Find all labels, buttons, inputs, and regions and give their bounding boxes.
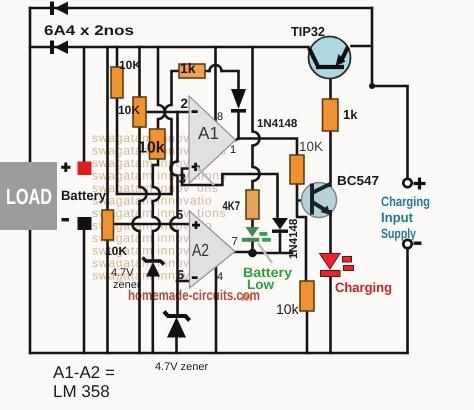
wire y224 pin5 line: [113, 223, 190, 226]
diode D3 1N4148: [231, 89, 246, 113]
svg-text:A1: A1: [198, 123, 219, 143]
battery plus terminal: [61, 162, 91, 176]
svg-text:3: 3: [179, 171, 187, 186]
svg-text:10K: 10K: [299, 139, 323, 154]
wire A2 output stub: [235, 251, 253, 254]
wire 10k R3 chain top: [158, 47, 165, 129]
svg-text:6: 6: [177, 267, 184, 282]
wire y138 to R5: [239, 139, 298, 156]
wire 4K7 bottom to green led: [251, 219, 254, 226]
resistor R1 10K: [111, 58, 141, 98]
svg-text:10K: 10K: [118, 103, 140, 117]
cursor artifact near A1: [197, 167, 214, 185]
wire green led to junction: [251, 243, 254, 254]
svg-text:8: 8: [217, 111, 223, 123]
wire zener Z1 bottom: [152, 277, 155, 353]
wire BC547 emitter down to red led: [329, 215, 332, 252]
junction dot right top: [369, 83, 375, 89]
svg-text:7: 7: [232, 236, 238, 248]
svg-text:10K: 10K: [105, 244, 127, 258]
svg-text:1k: 1k: [180, 60, 196, 76]
svg-text:1: 1: [230, 144, 236, 156]
wire 10K R4 chain top: [106, 47, 109, 210]
label Charging Input Supply: [381, 194, 430, 241]
zener Z2 4.7V: [164, 312, 190, 338]
wire 1k bottom to BC547 collector: [329, 131, 332, 187]
wire 10K R1 chain: [116, 47, 119, 67]
diode D1 6A4 top: [50, 2, 68, 16]
svg-text:A2: A2: [192, 240, 209, 260]
battery minus terminal: [62, 217, 92, 230]
wire junction to D4 bottom and right: [253, 233, 293, 254]
op-amp U1 A1: [179, 96, 237, 186]
wire 1k right to diode D3: [204, 71, 239, 89]
wire zener Z2 bottom: [175, 338, 178, 353]
svg-text:Input: Input: [381, 210, 413, 225]
svg-text:4K7: 4K7: [223, 199, 241, 213]
wire 10K R2 chain top: [138, 47, 141, 97]
wire R4 bottom: [106, 240, 109, 353]
svg-text:LM 358: LM 358: [53, 382, 110, 401]
LOAD box: [0, 162, 57, 230]
svg-text:Low: Low: [247, 277, 274, 292]
wire pin3 path under A1 to D4: [182, 169, 278, 219]
transistor Q2 BC547: [302, 173, 380, 218]
resistor R6 10k: [276, 281, 314, 317]
cursor artifact battery low: [258, 243, 272, 263]
svg-text:TIP32: TIP32: [291, 24, 325, 39]
svg-text:6A4 x 2nos: 6A4 x 2nos: [44, 22, 134, 38]
svg-text:4: 4: [217, 271, 223, 283]
svg-text:A1-A2 =: A1-A2 =: [53, 363, 115, 382]
wire A1 output stub: [236, 139, 239, 141]
svg-text:4.7V zener: 4.7V zener: [155, 361, 209, 373]
transistor Q1 TIP32: [291, 24, 351, 79]
wire second rail: [30, 46, 309, 49]
wire pin6 stub: [177, 280, 190, 283]
wire y112 pin2 line: [146, 111, 189, 114]
svg-text:1N4148: 1N4148: [288, 218, 300, 259]
wire 1k left feedback vertical: [165, 71, 179, 194]
resistor R8 4K7: [223, 190, 260, 219]
wire red led bottom: [329, 276, 332, 353]
svg-text:Charging: Charging: [381, 194, 430, 209]
svg-text:1k: 1k: [343, 107, 358, 122]
wire LOAD bottom: [29, 230, 32, 353]
svg-text:Supply: Supply: [381, 226, 416, 241]
wire bottom rail: [30, 352, 408, 355]
wire TIP32 collector to right: [352, 45, 373, 48]
watermark swagatam innovations: [92, 131, 227, 283]
resistor R9 1k: [323, 99, 359, 131]
resistor R3 10k: [138, 129, 165, 159]
terminal charging plus: [403, 178, 425, 190]
wire battery plus drop: [83, 47, 86, 161]
label A1-A2 LM358: [53, 363, 115, 401]
wire left vertical to LOAD: [29, 8, 32, 162]
wire pin8 drop: [214, 47, 217, 120]
label Battery Low: [243, 265, 293, 292]
LED green battery low: [242, 227, 271, 242]
svg-text:m: m: [241, 290, 252, 304]
junction dot A2 output: [248, 249, 257, 258]
svg-text:2: 2: [181, 96, 189, 111]
diode D4 1N4148: [272, 218, 288, 233]
zener Z1 4.7V: [143, 258, 165, 277]
wire A2 pin4 drop: [215, 267, 218, 353]
svg-text:zener: zener: [113, 279, 141, 291]
wire y194 line: [117, 193, 172, 196]
wire to charging plus: [372, 86, 408, 179]
wire R1 bottom to y194: [116, 98, 119, 194]
svg-text:4.7V: 4.7V: [111, 267, 134, 279]
wire V2 pin6 vertical: [171, 112, 178, 316]
wire battery minus drop: [83, 230, 86, 353]
wire charging minus down: [406, 249, 409, 354]
wire V252 from rail: [253, 47, 260, 190]
hop 1k wire over pin8 drop: [210, 65, 222, 71]
wire R5 bottom to base and R6: [297, 184, 310, 281]
resistor R4 10K: [102, 210, 127, 258]
terminal charging minus: [403, 240, 421, 248]
wire R2 bottom to bottom rail: [133, 127, 147, 353]
resistor R2 10K: [118, 97, 146, 127]
wire right top corner down: [371, 8, 374, 86]
wire D3 bottom to out junction: [237, 113, 240, 139]
wire R3 bottom jog to zener: [153, 159, 160, 261]
watermark homemade-circuits.com: [128, 288, 260, 304]
svg-text:10k: 10k: [138, 140, 165, 157]
resistor R5 10K: [290, 139, 323, 184]
LED red charging: [320, 254, 354, 277]
wire 10k R6 bottom: [306, 311, 309, 353]
svg-text:10K: 10K: [119, 58, 141, 72]
svg-text:5: 5: [176, 207, 183, 222]
svg-text:1N4148: 1N4148: [257, 118, 298, 130]
wire TIP32 base down to 1k: [329, 68, 332, 99]
svg-text:BC547: BC547: [337, 173, 379, 188]
diode D2 6A4 second: [50, 41, 68, 55]
wire top rail: [30, 7, 372, 10]
svg-text:LOAD: LOAD: [6, 184, 52, 209]
svg-text:Battery: Battery: [61, 188, 106, 203]
svg-text:Charging: Charging: [335, 280, 392, 295]
svg-text:10k: 10k: [276, 301, 300, 317]
resistor R7 1k feedback: [179, 60, 205, 78]
op-amp U2 A2: [176, 207, 238, 288]
label 4.7V zener left: [111, 267, 141, 291]
